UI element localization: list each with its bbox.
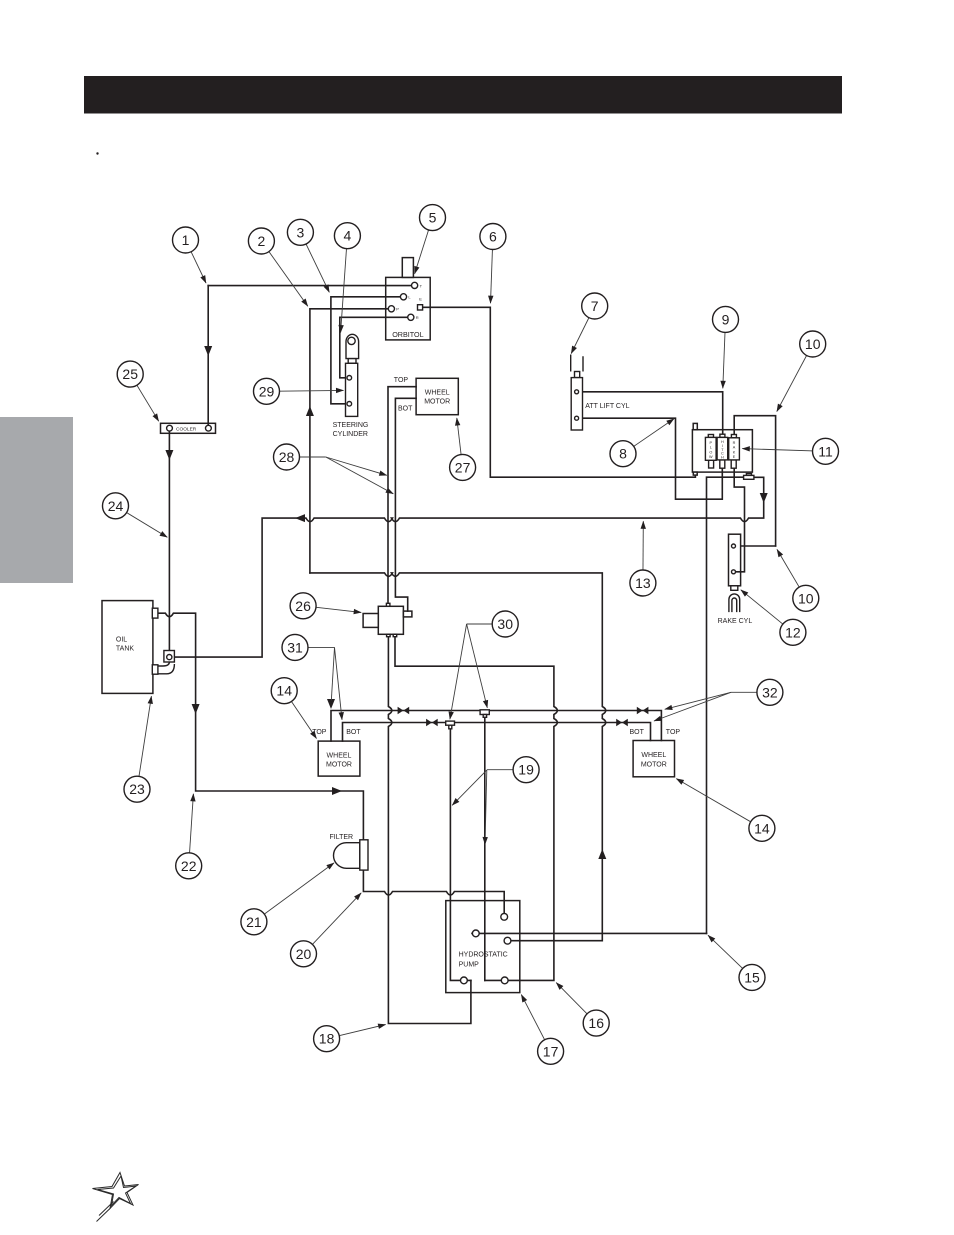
- svg-text:OIL: OIL: [116, 637, 127, 644]
- pump bottom-right port: [501, 977, 508, 984]
- wire: filter outlet to pump top port: [363, 870, 504, 913]
- wire: pump mid port to long right riser: [472, 932, 707, 934]
- svg-text:TOP: TOP: [666, 729, 681, 736]
- callout circle 10b: [793, 585, 819, 611]
- callout 29 leader: [267, 389, 344, 392]
- wire: orbitol T to junction above cooler: [208, 285, 411, 287]
- svg-text:8: 8: [619, 446, 627, 462]
- svg-text:29: 29: [259, 383, 275, 399]
- steering cylinder barrel: [346, 363, 358, 416]
- svg-text:MOTOR: MOTOR: [326, 762, 352, 769]
- svg-text:9: 9: [722, 311, 730, 327]
- oil tank box: [102, 601, 153, 694]
- callout 22 leader: [189, 794, 194, 866]
- svg-text:STEERING: STEERING: [333, 422, 369, 429]
- callout circle 4: [334, 223, 360, 249]
- hydrostatic pump box: [446, 901, 520, 993]
- wheel motor 1 box: [416, 378, 458, 414]
- svg-text:ATT LIFT CYL: ATT LIFT CYL: [585, 403, 629, 410]
- callout circle 6: [480, 224, 506, 250]
- orbitol port L: [400, 294, 406, 300]
- orbitol port T: [412, 282, 418, 288]
- callout circle 26: [290, 593, 316, 619]
- callout circle 3: [287, 219, 313, 245]
- steering cylinder neck: [348, 359, 356, 364]
- callout circle 17: [538, 1038, 564, 1064]
- svg-text:P: P: [710, 441, 713, 445]
- valve cartridge 3 (RAKE) body: [729, 438, 740, 460]
- valve cartridge 2 (HITCH) body: [717, 437, 728, 460]
- att lift cyl top port: [575, 390, 579, 394]
- steering cylinder rod eye hole: [348, 337, 355, 344]
- callout circle 9: [713, 306, 739, 332]
- orbitol port E: [418, 305, 423, 310]
- svg-text:20: 20: [296, 946, 312, 962]
- svg-text:6: 6: [489, 229, 497, 245]
- svg-text:21: 21: [246, 914, 262, 930]
- callout 15 leader: [708, 935, 752, 977]
- valve cartridge 1 (PLOW) body: [705, 437, 716, 460]
- att lift cyl neck: [575, 372, 580, 378]
- svg-text:R: R: [416, 315, 419, 320]
- callout 32 leader: [731, 691, 770, 693]
- svg-text:2: 2: [258, 233, 266, 249]
- wire: pump return line horizontal and down to pump right port: [310, 573, 606, 941]
- svg-text:30: 30: [497, 616, 513, 632]
- callout circle 23: [124, 776, 150, 802]
- callout circle 5: [420, 205, 446, 231]
- wire: tee fitting 2 drop line: [484, 714, 486, 980]
- callout circle 8: [610, 441, 636, 467]
- svg-text:FILTER: FILTER: [330, 834, 354, 841]
- svg-text:3: 3: [297, 224, 305, 240]
- orbitol port R: [408, 314, 414, 320]
- svg-text:TANK: TANK: [116, 646, 134, 653]
- cooler left port: [167, 425, 173, 431]
- valve block top-left tab: [693, 423, 697, 429]
- rake cyl clevis fork: [729, 594, 740, 612]
- svg-text:16: 16: [588, 1015, 604, 1031]
- valve cartridge 1 (PLOW) bottom tab: [709, 460, 714, 468]
- valve cartridge 3 (RAKE) top tab: [731, 435, 736, 438]
- svg-text:HYDROSTATIC: HYDROSTATIC: [459, 952, 508, 959]
- callout circle 21: [241, 909, 267, 935]
- callout 17 leader: [521, 995, 550, 1052]
- tank elbow port: [167, 655, 172, 660]
- valve cartridge 2 (HITCH) top tab: [720, 434, 725, 437]
- flow arrow down on tank suction line: [192, 704, 200, 714]
- callout 11 leader: [742, 449, 825, 452]
- svg-text:PUMP: PUMP: [459, 962, 480, 969]
- filter canister: [333, 843, 359, 869]
- wire: tee fitting 1 drop line to pump bottom-left port: [450, 729, 471, 981]
- callout 5 leader: [415, 218, 433, 274]
- svg-text:31: 31: [287, 639, 303, 655]
- callout 10 leader: [777, 344, 813, 412]
- component boxes (under wires): [102, 258, 752, 993]
- svg-text:WHEEL: WHEEL: [327, 753, 352, 760]
- callout circle 13: [630, 570, 656, 596]
- callout circle 15: [739, 964, 765, 990]
- svg-text:10: 10: [805, 336, 821, 352]
- callout circle 22: [176, 853, 202, 879]
- callout 8 leader: [623, 419, 674, 454]
- svg-text:23: 23: [129, 781, 145, 797]
- flow arrow down on cooler outlet: [165, 450, 173, 460]
- svg-text:19: 19: [518, 762, 534, 778]
- svg-text:O: O: [709, 450, 712, 454]
- tank elbow block: [164, 651, 175, 663]
- svg-text:13: 13: [635, 575, 651, 591]
- callout circle 14: [271, 678, 297, 704]
- wire: valve 3 top to right riser: [734, 416, 775, 546]
- wire: wheel motor 1 TOP line down to junction block: [388, 387, 416, 604]
- svg-text:10: 10: [798, 590, 814, 606]
- svg-text:L: L: [710, 446, 712, 450]
- svg-text:COOLER: COOLER: [176, 427, 197, 433]
- callout circle 25: [117, 361, 143, 387]
- callout circle 27: [450, 454, 476, 480]
- orbitol port P: [388, 306, 394, 312]
- att lift cyl bottom port: [575, 416, 579, 420]
- stray dot: [96, 152, 98, 154]
- svg-text:TOP: TOP: [394, 377, 409, 384]
- svg-text:RAKE CYL: RAKE CYL: [718, 618, 753, 625]
- svg-text:WHEEL: WHEEL: [425, 390, 450, 397]
- junction block 26 bottom port b: [393, 634, 397, 636]
- callout circle 2: [248, 228, 274, 254]
- tank bottom fitting: [152, 665, 158, 674]
- svg-text:24: 24: [108, 498, 124, 514]
- callout 14 leader: [284, 691, 316, 739]
- svg-text:BOT: BOT: [630, 729, 645, 736]
- callout 9 leader: [723, 319, 726, 388]
- callout 28 leader: [287, 456, 326, 458]
- callout 30 leader: [467, 623, 506, 625]
- callout circle 18: [314, 1026, 340, 1052]
- svg-text:22: 22: [181, 858, 197, 874]
- callout circle 19: [513, 757, 539, 783]
- callout 20 leader: [304, 893, 362, 954]
- tank top fitting: [152, 608, 158, 618]
- cooler right port: [206, 425, 212, 431]
- junction block 26 top port: [386, 603, 390, 606]
- orifice valve symbol 1 on bus line 1: [398, 707, 404, 715]
- wire: att lift cyl bottom port loop to valve 2 bottom: [579, 418, 723, 499]
- callout 19 leader: [487, 769, 526, 771]
- svg-text:11: 11: [818, 443, 833, 459]
- flow arrow down on wheel motor 2 top line: [327, 699, 335, 709]
- valve cartridge 1 (PLOW) top tab: [708, 435, 713, 438]
- callout 13 leader: [642, 521, 644, 583]
- callout 23 leader: [137, 696, 151, 789]
- svg-text:12: 12: [785, 624, 801, 640]
- flow arrow down on check valve drop: [760, 493, 768, 503]
- callout circle 14b: [749, 815, 775, 841]
- wire: wheel bus line 1: [331, 711, 661, 742]
- flow arrow up on orbitol P line: [306, 406, 314, 416]
- callout 27 leader: [457, 418, 463, 467]
- valve block bottom-left foot: [693, 472, 697, 475]
- tee fitting 1 stem: [449, 725, 452, 729]
- flow arrow down on cooler feed: [204, 346, 212, 356]
- tank elbow pipe: [158, 662, 175, 674]
- callout 14b leader: [676, 779, 762, 829]
- steering cylinder rod eye: [346, 334, 359, 358]
- valve cartridge 2 (HITCH) bottom tab: [720, 460, 725, 468]
- svg-text:E: E: [419, 296, 422, 301]
- orbitol top tab: [402, 258, 413, 278]
- callout circle 10: [800, 331, 826, 357]
- svg-text:28: 28: [279, 449, 295, 465]
- callout 12 leader: [741, 590, 793, 633]
- wire: valve 3 bottom to rake cyl bottom port: [734, 468, 744, 572]
- wire: orbitol E port down to valve block feed: [423, 307, 696, 477]
- att lift cyl rod: [571, 355, 583, 372]
- svg-text:14: 14: [754, 820, 770, 836]
- svg-text:14: 14: [276, 683, 292, 699]
- callout circle 30: [492, 611, 518, 637]
- wire: wheel bus line 2: [343, 723, 651, 742]
- svg-text:R: R: [733, 441, 736, 445]
- wire: orbitol L to steering cylinder bottom port: [331, 297, 401, 404]
- steering cylinder bottom port: [347, 402, 352, 407]
- orifice valve symbol 2 on bus line 2: [426, 719, 432, 727]
- wire: orbitol P down to pump return line: [310, 309, 388, 573]
- callout 3 leader: [300, 232, 329, 292]
- svg-text:1: 1: [182, 232, 190, 248]
- filter head: [360, 840, 368, 870]
- svg-text:H: H: [721, 456, 724, 460]
- flow arrow up on pump pressure riser: [598, 849, 606, 859]
- callout circle 16: [583, 1010, 609, 1036]
- flow arrow left on main return line: [295, 514, 305, 522]
- svg-text:15: 15: [744, 969, 760, 985]
- wire: orbitol R to steering cylinder top port: [340, 317, 408, 378]
- callout circle 29: [254, 378, 280, 404]
- svg-text:4: 4: [344, 228, 352, 244]
- svg-text:K: K: [733, 450, 736, 454]
- wheel motor 3 box: [633, 741, 674, 777]
- wheel motor 2 box: [318, 741, 360, 776]
- svg-text:32: 32: [762, 684, 778, 700]
- svg-text:MOTOR: MOTOR: [424, 399, 450, 406]
- callout circle 32: [757, 679, 783, 705]
- svg-text:P: P: [396, 307, 399, 312]
- wire: check valve left to long right riser: [707, 477, 744, 933]
- svg-text:ORBITOL: ORBITOL: [392, 330, 423, 339]
- callout circle 20: [291, 941, 317, 967]
- callout 24 leader: [116, 506, 168, 538]
- pump right port: [504, 937, 511, 944]
- cooler box: [161, 423, 216, 433]
- callout 18 leader: [327, 1025, 386, 1039]
- wire: tank top port to filter: [158, 613, 364, 840]
- check valve body: [744, 475, 754, 479]
- wire: rake cyl top port to right riser: [741, 545, 776, 547]
- svg-text:26: 26: [295, 598, 311, 614]
- callout circle 31: [282, 634, 308, 660]
- svg-text:27: 27: [455, 459, 471, 475]
- callout 26 leader: [303, 606, 361, 613]
- svg-text:7: 7: [591, 298, 599, 314]
- steering cylinder top port: [347, 376, 352, 381]
- callout 6 leader: [491, 237, 493, 304]
- wire: junction block bottom-left down to pump suction corner: [388, 637, 471, 1024]
- callout 10b leader: [777, 549, 806, 598]
- wire: junction block bottom-right loop to pump bottom ports: [395, 637, 557, 981]
- svg-text:W: W: [709, 455, 713, 459]
- gray sidebar tab: [0, 417, 73, 583]
- flow arrow right on tank-to-filter line: [332, 787, 342, 795]
- callout 16 leader: [556, 983, 596, 1024]
- check valve small collar: [746, 474, 751, 476]
- rake cylinder barrel: [729, 534, 741, 586]
- junction block 26 left tab: [363, 614, 378, 628]
- rake cyl rod neck: [731, 586, 738, 591]
- pump top port: [501, 913, 508, 920]
- wire: down to cooler right port: [207, 286, 209, 426]
- callout 7 leader: [571, 306, 595, 354]
- callout 31 leader: [295, 646, 335, 648]
- svg-text:5: 5: [429, 210, 437, 226]
- orifice valve symbol 4 on bus line 2: [616, 719, 622, 727]
- callout circle 12: [780, 619, 806, 645]
- junction block 26 body: [378, 606, 403, 634]
- junction block 26 right tab: [403, 611, 412, 617]
- wire: cooler left port down to tank elbow: [168, 431, 170, 650]
- svg-text:CYLINDER: CYLINDER: [333, 431, 368, 438]
- callout 2 leader: [261, 241, 307, 306]
- svg-text:MOTOR: MOTOR: [641, 761, 667, 768]
- rake cyl top port: [732, 544, 736, 548]
- wire: wheel motor 1 BOT line to junction block right tab: [395, 398, 416, 611]
- callout circle 11: [813, 438, 839, 464]
- svg-text:17: 17: [543, 1043, 559, 1059]
- junction block 26 bottom port a: [387, 634, 391, 636]
- smithco star logo: [93, 1173, 139, 1222]
- callout circle 1: [173, 227, 199, 253]
- pump bottom-left port: [461, 977, 468, 984]
- valve block outer box: [692, 430, 752, 472]
- callout circle 24: [103, 493, 129, 519]
- svg-text:18: 18: [319, 1031, 335, 1047]
- callout 21 leader: [254, 863, 334, 922]
- callout circle 7: [582, 293, 608, 319]
- svg-text:E: E: [733, 455, 736, 459]
- wire: main return line from check valve to tank elbow: [174, 477, 764, 657]
- svg-text:BOT: BOT: [398, 405, 413, 412]
- tee fitting 2 body: [480, 710, 489, 715]
- callout 1 leader: [186, 240, 207, 283]
- rake cyl bottom port: [732, 570, 736, 574]
- svg-text:BOT: BOT: [346, 729, 361, 736]
- orbitol unit box: [386, 277, 431, 340]
- callout circle 28: [274, 444, 300, 470]
- tee fitting 1 body: [446, 721, 455, 725]
- svg-text:A: A: [733, 446, 736, 450]
- callout 25 leader: [130, 374, 159, 421]
- wire: att lift cyl top port to valve 2 top: [579, 392, 723, 434]
- att lift cyl barrel: [571, 378, 582, 430]
- valve cartridge 3 (RAKE) bottom tab: [731, 460, 736, 468]
- callout 4 leader: [341, 236, 348, 333]
- orifice valve symbol 3 on bus line 1: [637, 707, 643, 715]
- tee fitting 2 stem: [483, 715, 486, 718]
- header bar: [84, 76, 842, 114]
- svg-text:WHEEL: WHEEL: [641, 752, 666, 759]
- svg-text:25: 25: [122, 366, 138, 382]
- pump mid-left port: [472, 930, 479, 937]
